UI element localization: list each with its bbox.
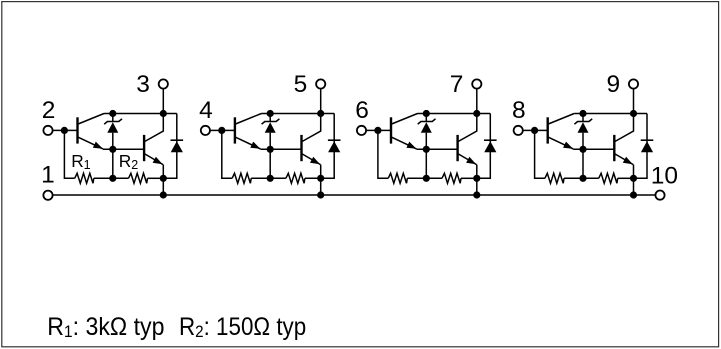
diode D1 <box>171 140 184 152</box>
wire top rail cell 3 <box>418 113 491 115</box>
wire output node down to common rail <box>162 178 164 195</box>
wire input node to Q7 base <box>535 129 548 131</box>
zener diode Z4 <box>574 114 592 150</box>
wire right edge (rail to diode to output node) <box>634 114 648 179</box>
transistor Q5 <box>391 114 418 149</box>
resistor R2 cell 2 <box>286 173 305 183</box>
zener diode Z1 <box>104 114 122 150</box>
wire output node down to common rail <box>476 178 478 195</box>
node output junction cell 3 <box>473 175 480 182</box>
resistor R1 cell 2 <box>232 173 251 183</box>
diode D3 <box>484 140 497 152</box>
svg-text:6: 6 <box>355 97 369 124</box>
wire top rail cell 2 <box>261 113 334 115</box>
wire pin 6 to input node <box>366 129 378 131</box>
transistor Q2 <box>144 114 163 165</box>
svg-text:5: 5 <box>294 71 308 98</box>
node Q7 emitter / Q8 base junction <box>579 146 586 153</box>
pin 9 terminal <box>629 79 638 88</box>
resistor R2 cell 3 <box>442 173 461 183</box>
wire emitter node to Q2 base <box>103 148 144 150</box>
wire pin 4 to input node <box>210 129 222 131</box>
node output junction cell 2 <box>317 175 324 182</box>
resistor R1 cell 3 <box>388 173 407 183</box>
node zener top junction cell 1 <box>109 110 116 117</box>
resistor R2 cell 1 <box>129 173 148 183</box>
node zener top junction cell 2 <box>267 110 274 117</box>
wire pin 7 drop to top rail <box>476 89 478 114</box>
wire input node down and across to R1 <box>378 130 388 178</box>
transistor Q6 <box>458 114 477 165</box>
node R1/R2 junction cell 3 <box>423 175 430 182</box>
wire pin 5 drop to top rail <box>320 89 322 114</box>
wire output node down to common rail <box>320 178 322 195</box>
node top rail junction cell 1 <box>160 110 167 117</box>
pin 7 terminal <box>472 79 481 88</box>
node common rail junction cell 3 <box>473 191 480 198</box>
transistor Q4 <box>302 114 321 165</box>
wire top rail cell 1 <box>104 113 177 115</box>
pin 10 terminal <box>655 191 664 200</box>
svg-text:2: 2 <box>42 97 56 124</box>
svg-text:3: 3 <box>136 71 150 98</box>
pin 6 terminal <box>357 126 366 135</box>
wire pin 2 to input node <box>53 129 65 131</box>
wire pin 3 drop to top rail <box>162 89 164 114</box>
transistor Q7 <box>548 114 575 149</box>
wire emitter node to Q6 base <box>417 148 458 150</box>
pin 2 terminal <box>43 126 52 135</box>
wire R1 to R2 <box>407 177 442 179</box>
zener diode Z3 <box>418 114 436 150</box>
node R1/R2 junction cell 4 <box>579 175 586 182</box>
wire right edge (rail to diode to output node) <box>163 114 177 179</box>
wire R1 to R2 <box>251 177 286 179</box>
node common rail junction cell 4 <box>630 191 637 198</box>
diode D4 <box>641 140 654 152</box>
svg-text:4: 4 <box>199 97 213 124</box>
wire emitter node down to resistor node <box>582 149 584 178</box>
node input junction cell 2 <box>218 127 225 134</box>
node top rail junction cell 2 <box>317 110 324 117</box>
pin 4 terminal <box>201 126 210 135</box>
svg-text:7: 7 <box>450 71 464 98</box>
wire emitter node down to resistor node <box>269 149 271 178</box>
transistor Q8 <box>614 114 633 165</box>
node Q3 emitter / Q4 base junction <box>267 146 274 153</box>
resistor R1 cell 1 <box>75 173 94 183</box>
wire pin 9 drop to top rail <box>633 89 635 114</box>
pin 1 terminal <box>43 191 52 200</box>
pin 3 terminal <box>159 79 168 88</box>
transistor Q3 <box>235 114 262 149</box>
wire common rail pin 1 to pin 10 <box>53 194 656 196</box>
node input junction cell 4 <box>531 127 538 134</box>
node output junction cell 1 <box>160 175 167 182</box>
svg-text:1: 1 <box>41 162 55 189</box>
node common rail junction cell 2 <box>317 191 324 198</box>
node top rail junction cell 3 <box>473 110 480 117</box>
node zener top junction cell 4 <box>579 110 586 117</box>
wire R2 to output node <box>618 177 634 179</box>
node input junction cell 1 <box>61 127 68 134</box>
wire input node down and across to R1 <box>64 130 74 178</box>
wire Q8 emitter down to output node <box>633 165 635 179</box>
wire R1 to R2 <box>94 177 129 179</box>
node input junction cell 3 <box>374 127 381 134</box>
pin 5 terminal <box>316 79 325 88</box>
wire pin 8 to input node <box>523 129 535 131</box>
svg-text:10: 10 <box>651 163 678 190</box>
node common rail junction cell 1 <box>160 191 167 198</box>
wire input node to Q1 base <box>64 129 77 131</box>
node Q5 emitter / Q6 base junction <box>423 146 430 153</box>
wire input node down and across to R1 <box>535 130 545 178</box>
wire right edge (rail to diode to output node) <box>477 114 491 179</box>
node R1/R2 junction cell 2 <box>267 175 274 182</box>
wire R2 to output node <box>148 177 164 179</box>
wire emitter node down to resistor node <box>112 149 114 178</box>
resistor R2 cell 4 <box>599 173 618 183</box>
zener diode Z2 <box>262 114 280 150</box>
pin 8 terminal <box>514 126 523 135</box>
wire input node to Q5 base <box>378 129 391 131</box>
wire right edge (rail to diode to output node) <box>321 114 335 179</box>
svg-text:8: 8 <box>512 97 526 124</box>
wire R2 to output node <box>461 177 477 179</box>
wire input node down and across to R1 <box>222 130 232 178</box>
wire output node down to common rail <box>633 178 635 195</box>
wire Q2 emitter down to output node <box>162 165 164 179</box>
node output junction cell 4 <box>630 175 637 182</box>
wire R2 to output node <box>305 177 321 179</box>
diode D2 <box>328 140 341 152</box>
resistor R1 cell 4 <box>545 173 564 183</box>
node top rail junction cell 4 <box>630 110 637 117</box>
wire emitter node to Q4 base <box>260 148 301 150</box>
wire Q4 emitter down to output node <box>320 165 322 179</box>
wire input node to Q3 base <box>222 129 235 131</box>
transistor Q1 <box>78 114 105 149</box>
svg-text:9: 9 <box>606 71 620 98</box>
wire Q6 emitter down to output node <box>476 165 478 179</box>
wire emitter node down to resistor node <box>425 149 427 178</box>
node Q1 emitter / Q2 base junction <box>109 146 116 153</box>
node R1/R2 junction cell 1 <box>109 175 116 182</box>
wire R1 to R2 <box>564 177 599 179</box>
wire emitter node to Q8 base <box>573 148 614 150</box>
wire top rail cell 4 <box>574 113 647 115</box>
node zener top junction cell 3 <box>423 110 430 117</box>
